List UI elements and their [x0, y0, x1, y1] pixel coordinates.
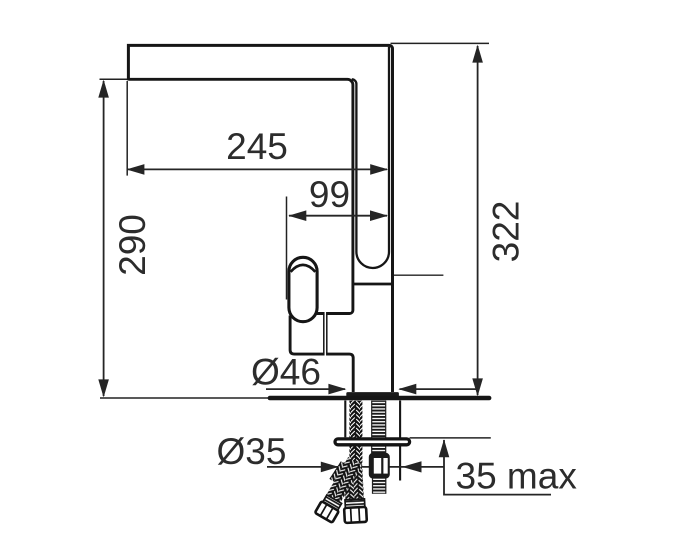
countertop line [270, 396, 489, 401]
left hose (to nut) [315, 457, 365, 523]
svg-text:322: 322 [486, 201, 527, 263]
dimension 322 [472, 45, 483, 397]
braided hose vertical section [349, 401, 362, 463]
dimension Ø46 [266, 384, 479, 395]
dimension Ø35 [267, 461, 444, 472]
faucet outer contour [128, 45, 392, 392]
right hose (to nut) [342, 461, 367, 523]
hole edge right / Ø35 extension [399, 401, 401, 481]
extension line arm bottom left (290) [100, 78, 129, 80]
svg-text:99: 99 [309, 174, 350, 215]
faucet arm bottom and riser left edge down to shelf [128, 79, 353, 313]
dimension 35 max [410, 438, 552, 495]
svg-text:Ø46: Ø46 [251, 352, 321, 393]
svg-text:290: 290 [112, 214, 153, 276]
hose crossing patch [329, 461, 350, 485]
mounting plate [335, 439, 410, 445]
extension line left spout edge (245) [126, 81, 128, 176]
leader line at joint [394, 274, 444, 276]
swivel joint line [352, 283, 394, 286]
faucet spout inner slot [352, 47, 389, 268]
handle lever top inner arc [291, 265, 316, 272]
svg-text:35 max: 35 max [456, 455, 578, 496]
handle lever pill [289, 257, 317, 321]
extension line handle face (99) [286, 197, 288, 300]
base flange [346, 392, 399, 397]
wire [100, 43, 490, 398]
cartridge neck lines [324, 314, 327, 354]
dimension 290 [98, 80, 109, 398]
dimension 99 [288, 210, 388, 221]
extension line top right (322) [391, 42, 490, 44]
svg-text:Ø35: Ø35 [217, 431, 287, 472]
extension line countertop left (290) [100, 397, 271, 399]
threaded stud lower section [372, 479, 386, 494]
handle base outline [290, 316, 353, 393]
locking nut on stud [369, 453, 390, 479]
cartridge neck passage [325, 312, 327, 357]
hole edge left [344, 401, 346, 438]
dimension 245 [126, 164, 388, 175]
svg-text:245: 245 [226, 126, 288, 167]
threaded stud upper section [371, 401, 386, 453]
